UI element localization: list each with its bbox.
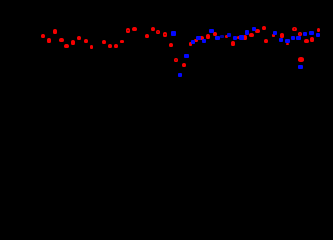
- atom O42 (O): [310, 37, 314, 41]
- atom N11 (N): [233, 36, 237, 40]
- atom N10 (N): [227, 33, 231, 37]
- atom O19 (O): [163, 32, 167, 36]
- atom O5 (O): [64, 44, 68, 48]
- atom O43 (O): [317, 28, 320, 32]
- atom O15 (O): [132, 27, 136, 31]
- atom N17 (N): [285, 39, 290, 43]
- atom O38 (O): [292, 27, 297, 32]
- atom O44 (O): [272, 34, 275, 37]
- atom O23 (O): [189, 42, 193, 46]
- atom O12 (O): [114, 44, 118, 48]
- atom N1 (N): [171, 31, 175, 35]
- atom O4 (O): [59, 38, 63, 42]
- atom N20 (N): [298, 65, 302, 69]
- atom O31 (O): [243, 35, 247, 39]
- atom O30 (O): [237, 36, 240, 39]
- atom N14 (N): [252, 27, 256, 31]
- atom O34 (O): [262, 26, 266, 30]
- atom N4 (N): [191, 40, 195, 44]
- atom O14 (O): [126, 28, 130, 32]
- atom O8 (O): [84, 39, 88, 43]
- atom N22 (N): [309, 31, 313, 35]
- atom O35 (O): [264, 39, 268, 43]
- atom O3 (O): [53, 29, 57, 33]
- atom N23 (N): [316, 33, 320, 37]
- atom O33 (O): [255, 29, 259, 33]
- atom N21 (N): [303, 32, 307, 36]
- atom N8 (N): [215, 36, 219, 40]
- atom O28 (O): [225, 35, 228, 38]
- atom O20 (O): [169, 43, 173, 47]
- atom O32 (O): [249, 33, 253, 37]
- atom N6 (N): [202, 39, 206, 43]
- atom N7 (N): [209, 29, 213, 33]
- atom O16 (O): [145, 34, 149, 38]
- atom O29 (O): [231, 41, 235, 45]
- atom O26 (O): [206, 34, 210, 38]
- atom O6 (O): [71, 40, 75, 44]
- atom O40 (O): [298, 57, 304, 61]
- atom N9 (N): [220, 35, 224, 38]
- atom N12 (N): [239, 35, 243, 39]
- atom O41 (O): [304, 39, 308, 43]
- atom O17 (O): [151, 27, 155, 31]
- atom N5 (N): [196, 36, 201, 40]
- atom O11 (O): [108, 44, 112, 48]
- atom O36 (O): [280, 33, 284, 37]
- atom O21 (O): [174, 58, 178, 62]
- atom O18 (O): [156, 30, 160, 34]
- atom N15 (N): [273, 31, 277, 35]
- atom O37 (O): [286, 43, 289, 46]
- atom O22 (O): [182, 63, 186, 67]
- atom O9 (O): [90, 45, 94, 49]
- atom N19 (N): [296, 36, 300, 40]
- atom O27 (O): [213, 32, 217, 36]
- atom O13 (O): [120, 40, 124, 43]
- atom O10 (O): [102, 40, 106, 44]
- atom N16 (N): [279, 38, 283, 42]
- atom O2 (O): [47, 38, 51, 42]
- atom O7 (O): [77, 36, 81, 40]
- atom O1 (O): [41, 34, 45, 38]
- atom N13 (N): [245, 30, 249, 34]
- atom O25 (O): [199, 36, 203, 40]
- atom N3 (N): [184, 54, 189, 58]
- atom N18 (N): [291, 36, 295, 40]
- atom O39 (O): [298, 32, 303, 37]
- atom O24 (O): [194, 39, 197, 42]
- atom N2 (N): [178, 73, 182, 77]
